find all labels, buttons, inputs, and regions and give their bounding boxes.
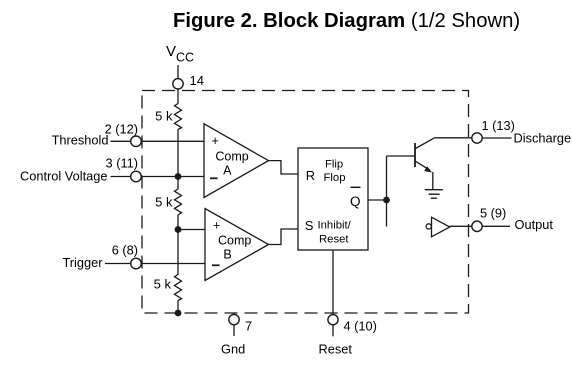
title: Figure 2. Block Diagram (1/2 Shown) (173, 10, 520, 32)
svg-text:Reset: Reset (319, 342, 353, 357)
svg-text:5 k: 5 k (155, 195, 173, 210)
wire comp B output to FF S input (with jog) (269, 229, 299, 245)
svg-text:Comp: Comp (218, 233, 251, 247)
svg-text:Output: Output (515, 217, 554, 232)
wire Threshold to comp A + input (141, 140, 204, 142)
wire Control Voltage stub (111, 176, 131, 178)
pin 3 (11) Control Voltage label (20, 156, 138, 184)
pin 1 terminal circle (472, 133, 482, 143)
svg-text:Comp: Comp (215, 150, 248, 164)
svg-text:Discharge: Discharge (514, 131, 572, 146)
svg-text:1 (13): 1 (13) (482, 118, 515, 133)
wire Trigger stub (105, 263, 131, 265)
svg-text:Flop: Flop (324, 172, 346, 184)
wire Control Voltage to comp A - input (141, 176, 204, 178)
pin 5 (9) Output label (480, 206, 553, 233)
net VCC label (166, 43, 194, 65)
transistor Q1 (discharge) (415, 138, 435, 189)
junction dot divider / comp B + (175, 226, 182, 233)
svg-text:14: 14 (190, 73, 204, 88)
wire R1 to R2 (through threshold node and control node) (177, 130, 179, 190)
pin 2 terminal circle (131, 136, 142, 147)
svg-text:5 (9): 5 (9) (480, 206, 506, 221)
junction dot Q node (383, 197, 390, 204)
op-amp comparator B (205, 209, 269, 281)
wire pin 4 stub (332, 325, 334, 337)
svg-text:Q: Q (350, 194, 361, 209)
Q overline (351, 186, 361, 188)
pin 14 terminal circle (173, 79, 183, 89)
pin 4 (10) Reset label (319, 319, 377, 357)
svg-text:7: 7 (245, 319, 252, 334)
wire Threshold stub (111, 140, 131, 142)
svg-text:A: A (223, 164, 232, 178)
flip-flop U2 box (298, 148, 368, 250)
svg-text:6 (8): 6 (8) (112, 243, 138, 258)
wire buffer to pin 5 (450, 225, 472, 227)
svg-text:R: R (306, 168, 315, 183)
pin 2 (12) Threshold label (52, 122, 138, 148)
wire R3 to ground rail (177, 301, 179, 314)
svg-text:5 k: 5 k (155, 109, 173, 124)
pin 1 (13) Discharge label (482, 118, 572, 146)
junction dot control voltage / divider (175, 173, 182, 180)
pin 7 Gnd label (221, 319, 252, 357)
resistor R2 5k (155, 189, 181, 215)
wire pin 7 stub (233, 325, 235, 336)
wire Trigger to comp B - input (141, 263, 205, 265)
svg-text:+: + (212, 134, 219, 148)
wire divider node to comp B + input (178, 229, 205, 231)
svg-text:4 (10): 4 (10) (344, 319, 377, 334)
wire Q node to transistor base (387, 155, 415, 157)
buffer (output inverter) (426, 217, 450, 237)
pin 6 terminal circle (131, 258, 142, 269)
ground symbol (425, 190, 443, 199)
pin 4 terminal circle (328, 315, 338, 325)
pin 6 (8) Trigger label (62, 243, 138, 270)
wire Q node vertical (to base and to buffer) (386, 156, 388, 227)
wire ground rail to pin 7 (233, 313, 235, 314)
wire pin14 to R1 (177, 89, 179, 103)
svg-text:CC: CC (176, 50, 194, 64)
svg-text:Control Voltage: Control Voltage (20, 168, 108, 183)
pin 5 terminal circle (472, 221, 482, 231)
svg-text:Inhibit/: Inhibit/ (318, 220, 352, 232)
svg-text:Gnd: Gnd (221, 342, 245, 357)
svg-text:S: S (305, 218, 314, 233)
svg-text:Figure 2. Block Diagram (1/2 S: Figure 2. Block Diagram (1/2 Shown) (173, 10, 520, 32)
wire comp A output to FF R input (with jog) (269, 161, 299, 174)
svg-text:+: + (213, 219, 220, 233)
svg-text:B: B (223, 248, 231, 262)
wire pin 5 stub to Output (482, 225, 510, 227)
op-amp comparator A (204, 124, 269, 198)
pin 7 terminal circle (229, 314, 239, 324)
wire pin 1 stub to Discharge (482, 137, 511, 139)
svg-text:3 (11): 3 (11) (106, 156, 138, 171)
resistor R3 5k (154, 275, 182, 301)
wire FF to reset pin 4 (332, 250, 334, 315)
wire R2 to R3 (through compB+ node, crossing trigger line) (177, 215, 179, 275)
svg-text:Trigger: Trigger (62, 255, 103, 270)
svg-text:Reset: Reset (319, 234, 349, 246)
wire collector to pin 1 (435, 137, 472, 139)
wire Vcc to pin 14 (177, 65, 179, 78)
svg-text:V: V (166, 43, 176, 60)
dashed IC boundary box (142, 91, 469, 314)
junction dot on ground rail (175, 310, 182, 317)
wire FF Q output to junction (368, 199, 387, 201)
svg-text:Threshold: Threshold (52, 132, 109, 147)
pin 3 terminal circle (131, 171, 142, 182)
resistor R1 5k (155, 104, 181, 130)
svg-text:5 k: 5 k (154, 277, 172, 292)
svg-text:Flip: Flip (325, 159, 343, 171)
svg-text:2 (12): 2 (12) (105, 122, 138, 137)
